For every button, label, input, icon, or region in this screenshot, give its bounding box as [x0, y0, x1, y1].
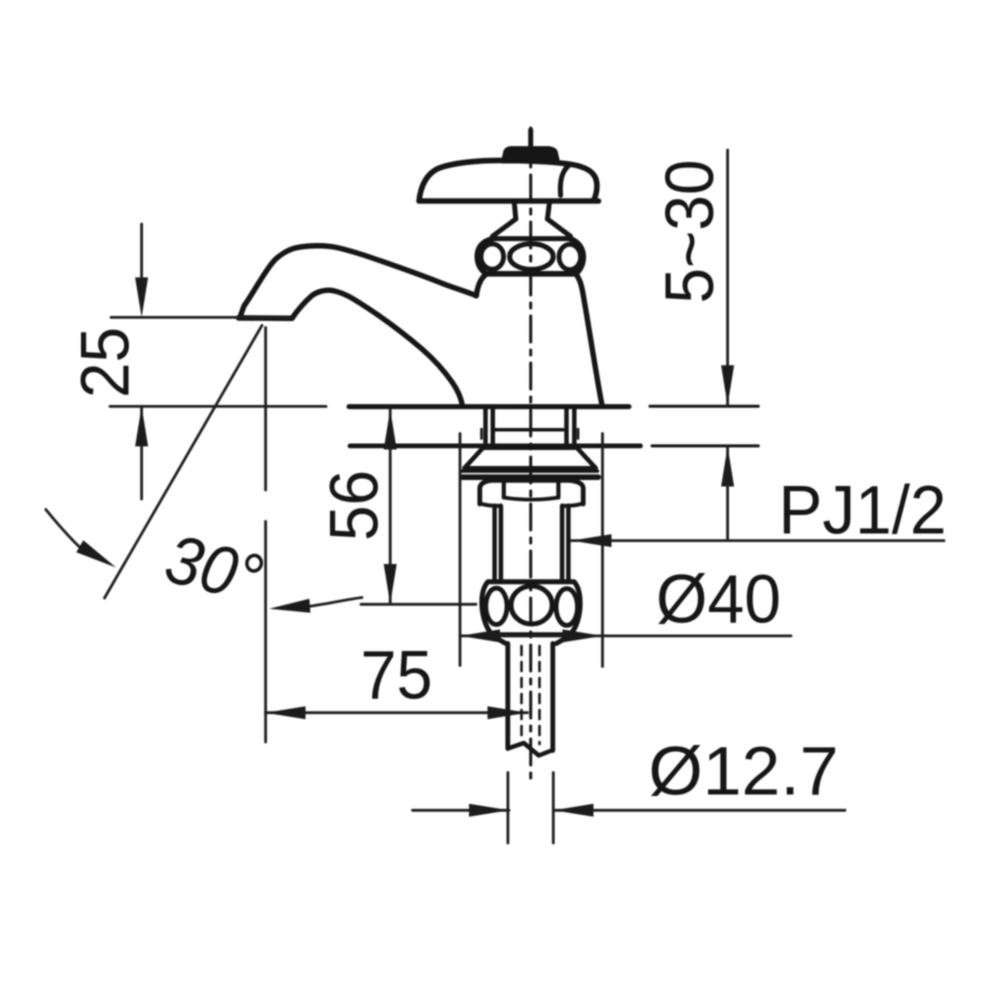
handle front arm arc — [560, 166, 568, 196]
dim O40 ext lines — [460, 434, 603, 667]
escutcheon cone — [464, 448, 596, 468]
dim 56 line — [389, 410, 392, 605]
threaded shank PJ1/2 — [495, 506, 569, 581]
coupling ellipse right — [556, 589, 577, 626]
locknut — [480, 480, 583, 504]
flange washer — [463, 470, 598, 473]
dim 30 leader right — [305, 598, 362, 607]
index cap — [503, 148, 559, 162]
counter top right stub — [650, 405, 758, 408]
dim 25 lines — [140, 224, 143, 499]
pipe break — [508, 743, 553, 756]
svg-text:Ø40: Ø40 — [656, 561, 781, 638]
body neck left — [476, 274, 486, 296]
svg-text:75: 75 — [361, 637, 433, 714]
coupling nut — [482, 582, 580, 635]
spout top — [240, 246, 476, 317]
svg-text:30°: 30° — [158, 520, 270, 618]
body right edge — [576, 274, 602, 404]
svg-text:56: 56 — [316, 470, 393, 541]
leader PJ1/2 — [572, 539, 945, 542]
ring ellipse right — [559, 244, 581, 269]
dim 30 diagonal — [105, 325, 263, 598]
ring top line — [494, 236, 570, 241]
counter bottom right stub — [652, 444, 758, 447]
shank thread ticks — [482, 429, 579, 439]
coupling shoulders — [490, 635, 572, 644]
coupling ellipse left — [486, 588, 507, 624]
counter top line — [349, 404, 629, 409]
supply pipe — [508, 644, 553, 751]
handle — [419, 160, 599, 201]
shank inner line — [495, 428, 563, 432]
bonnet cone — [493, 219, 571, 236]
ring ellipse center — [510, 244, 554, 270]
pipe inner thread dashed lines — [522, 646, 540, 744]
dim 30 leader left — [46, 510, 79, 547]
counter bottom line — [350, 443, 641, 448]
dim 56 ext bottom — [361, 603, 476, 606]
dim 25 extension lines — [110, 317, 326, 406]
svg-text:25: 25 — [67, 327, 144, 398]
coupling ellipse center — [511, 586, 552, 624]
dim 30 vertical ref — [264, 328, 267, 743]
centerline — [529, 128, 532, 784]
handle top stub — [528, 130, 533, 149]
mounting shank walls — [486, 409, 575, 447]
dim 5~30 lines — [726, 150, 729, 541]
svg-text:5~30: 5~30 — [651, 160, 728, 304]
svg-text:Ø12.7: Ø12.7 — [649, 733, 839, 810]
dim O12.7 lines — [413, 809, 846, 812]
arrowheads — [135, 277, 148, 317]
dim O40 line — [460, 635, 791, 638]
svg-text:PJ1/2: PJ1/2 — [779, 472, 947, 549]
ring ellipse left — [481, 244, 504, 269]
ring outer — [477, 239, 583, 274]
stem — [514, 202, 549, 220]
spout tip bottom — [239, 315, 293, 321]
dim O12.7 ext lines — [508, 773, 553, 844]
spout underside — [292, 290, 463, 406]
dim 75 line — [266, 711, 528, 714]
